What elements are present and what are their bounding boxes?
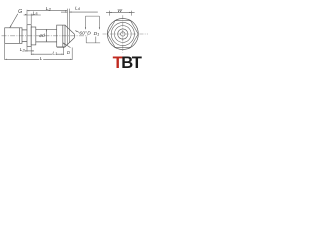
L4 arrow at 67.4	[65, 12, 67, 13]
washer	[31, 27, 36, 45]
slant leader arrowhead	[63, 43, 65, 45]
D D1 top bracket	[86, 16, 100, 29]
leader 60deg	[75, 31, 79, 33]
cone bottom arrow line	[57, 46, 65, 48]
svg-text:G: G	[18, 9, 22, 15]
D top arrow	[85, 27, 86, 29]
L3 arrow right	[65, 10, 67, 11]
dimension L3 line	[27, 10, 67, 12]
extension line x31.2 top	[30, 14, 32, 25]
L5 arrow at 31.2	[31, 14, 33, 15]
extension x72.2 bottom	[71, 48, 73, 60]
svg-text:60°: 60°	[79, 31, 86, 37]
W arrow right	[129, 12, 131, 13]
svg-text:L3: L3	[46, 6, 52, 12]
phi-d arrow up	[46, 29, 47, 31]
flange	[27, 25, 31, 47]
end view circle r5.1	[118, 29, 128, 39]
svg-text:L4: L4	[75, 5, 80, 11]
svg-text:L2: L2	[20, 47, 26, 53]
L2 arrow at 27	[25, 50, 27, 51]
extension x63.6 bottom	[63, 47, 65, 55]
shank	[36, 29, 57, 42]
leader G	[10, 14, 18, 28]
phi-d arrow down	[46, 40, 47, 42]
dimension L2 line	[25, 50, 35, 52]
hex	[57, 25, 65, 47]
end view hexagon	[107, 21, 138, 48]
svg-text:⌀d: ⌀d	[39, 33, 45, 39]
svg-text:L: L	[40, 56, 43, 62]
extension line x27 top	[26, 10, 28, 24]
svg-text:D: D	[67, 50, 70, 55]
cone bottom arrowhead	[63, 47, 65, 48]
extension x4.7 bottom	[4, 44, 6, 60]
leader 60deg arrowhead	[75, 31, 77, 32]
svg-text:L1: L1	[52, 51, 57, 57]
D1 top arrow	[99, 27, 100, 29]
W arrow left	[109, 12, 111, 13]
svg-text:W: W	[117, 8, 122, 14]
extension x31.2 bottom	[30, 45, 32, 55]
L1 arrow right	[61, 54, 63, 55]
thread runout line	[19, 28, 21, 44]
svg-text:L5: L5	[33, 11, 39, 17]
dimension L4 line right tail	[69, 11, 97, 13]
dimension L5 line	[24, 14, 41, 16]
L1 arrow left	[31, 54, 33, 55]
end view centerline vertical	[122, 15, 124, 53]
end view circle r2.2	[121, 32, 125, 36]
L arrow right	[70, 59, 72, 60]
svg-text:TBT: TBT	[113, 53, 142, 72]
extension stub x67.4	[66, 9, 68, 28]
dimension L4 line left tail	[61, 11, 67, 13]
L2 arrow at 31.2	[31, 50, 33, 51]
dimension W line	[106, 11, 135, 13]
end view outer circle	[107, 19, 138, 50]
cone section line x67.4	[66, 27, 68, 44]
neck	[22, 30, 27, 42]
cone section line x69.4	[68, 29, 70, 42]
leader G arrowhead	[10, 25, 12, 27]
L5 arrow at 27	[25, 14, 27, 15]
centerline side view	[2, 35, 89, 37]
L arrow left	[5, 59, 7, 60]
thread block	[5, 28, 22, 44]
cone bottom slant leader	[63, 43, 71, 48]
svg-text:D: D	[87, 31, 91, 37]
dimension L line	[5, 58, 73, 60]
end view centerline horizontal	[103, 33, 149, 35]
extension stub x69.4	[68, 9, 70, 30]
extension x27 bottom	[26, 47, 28, 52]
W ext right	[130, 11, 132, 16]
W ext left	[108, 11, 110, 16]
D D1 bottom bracket	[86, 37, 100, 43]
dimension L1 line	[31, 53, 63, 55]
L4 arrow at 69.4	[69, 12, 71, 13]
L3 arrow left	[27, 10, 29, 11]
end view circle r8.4	[114, 26, 131, 43]
svg-text:D1: D1	[94, 31, 100, 37]
cone	[65, 25, 74, 47]
dimension phi-d line	[45, 29, 47, 42]
end view circle r11.6	[111, 22, 134, 45]
hex facet line	[62, 25, 64, 47]
